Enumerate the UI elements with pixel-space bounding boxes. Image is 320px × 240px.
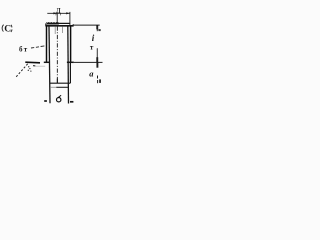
witness line middle right <box>74 61 103 63</box>
svg-text:С: С <box>4 25 11 35</box>
serration ticks on top rim <box>47 22 58 23</box>
sleeve outer wall right <box>70 26 72 62</box>
tube wall left (continues as witness) <box>49 26 50 103</box>
faint ground line <box>34 65 45 67</box>
node C (circled figure label) <box>2 25 12 35</box>
bottom edge <box>56 86 68 88</box>
svg-text:д: д <box>56 5 62 16</box>
witness line right <box>69 12 71 26</box>
dimension line lower right (a) <box>96 63 98 84</box>
dashed diagonal <box>16 64 28 77</box>
flange right <box>67 61 74 63</box>
lower outer wall right <box>69 62 71 83</box>
dimension line upper right (length) <box>96 25 98 62</box>
rim top line <box>47 22 70 24</box>
cap top line <box>50 82 71 84</box>
tube wall right (continues as witness) <box>67 26 70 104</box>
sleeve outer wall left <box>46 26 48 62</box>
leader to right witness (top) <box>74 24 100 26</box>
svg-text:бт: бт <box>19 46 28 54</box>
centerline <box>56 27 58 79</box>
svg-text:а: а <box>89 69 94 79</box>
svg-text:т: т <box>90 44 94 52</box>
rim bottom line <box>45 25 73 27</box>
slope bar (left feature) <box>25 61 40 64</box>
dimension line d (top) <box>47 12 70 14</box>
rim right edge <box>72 24 74 26</box>
bore faint knurl lines <box>54 27 56 35</box>
rim left edge <box>45 23 47 25</box>
bottom dimension arrows <box>44 100 47 102</box>
flange left <box>44 61 50 63</box>
arrow dots <box>28 66 32 72</box>
label б <box>57 95 62 102</box>
witness line left (centerline extension) <box>56 12 58 23</box>
